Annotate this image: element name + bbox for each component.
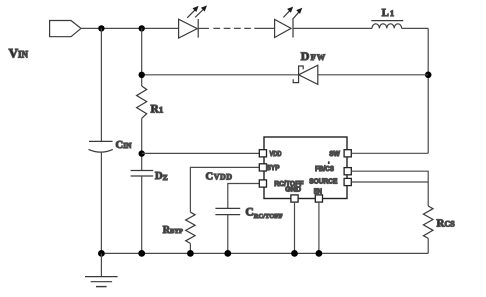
junction dot ground rail at GND pin — [291, 250, 298, 257]
pin label RC/TOFF — [274, 181, 304, 188]
resistor RBYP — [186, 212, 195, 243]
wire from LED2 cathode to inductor L1 — [293, 27, 372, 29]
wire SOURCE pin to RCS node — [351, 181, 428, 183]
pin GND (square) — [291, 195, 298, 202]
pin VDD (square) — [259, 150, 266, 157]
wire from DFW cathode to right rail — [318, 74, 428, 76]
ground — [85, 253, 118, 286]
wire FB/CS pin to RCS top — [351, 171, 428, 206]
svg-text:SW: SW — [329, 151, 340, 158]
svg-text:VIN: VIN — [9, 46, 29, 61]
svg-text:EN: EN — [314, 188, 322, 195]
svg-text:DZ: DZ — [155, 171, 168, 182]
wire BYP pin to RBYP — [190, 167, 259, 212]
LED D1 (first LED with light arrows) — [179, 5, 207, 38]
junction dot at VDD node — [139, 150, 145, 156]
label L1 — [382, 8, 395, 19]
junction dot ground rail at RBYP — [187, 250, 194, 257]
pin SOURCE (square) — [344, 178, 351, 185]
svg-text:L1: L1 — [382, 8, 395, 19]
junction dot ground rail at Dz — [138, 250, 145, 257]
inductor L1 — [371, 21, 403, 29]
wire RCS bottom to ground rail — [427, 238, 429, 253]
junction dot ground rail at EN pin — [316, 250, 323, 257]
junction dot ground rail at CIN — [98, 250, 105, 257]
wire top rail from VIN tag to LED1 anode — [80, 27, 179, 29]
wire right vertical rail (L1 to SW) — [427, 28, 429, 153]
pin label SW — [329, 151, 340, 158]
label CIN — [116, 140, 133, 151]
wire SW pin to right rail — [351, 152, 428, 154]
capacitor CRC/TOFF — [215, 208, 240, 214]
pin label BYP — [266, 165, 279, 172]
wire from top rail down to R1 — [141, 28, 143, 86]
svg-text:BYP: BYP — [266, 165, 279, 172]
op-amp U1 IC body — [264, 137, 347, 199]
wire EN pin to ground rail — [318, 202, 320, 253]
svg-text:SOURCE: SOURCE — [309, 179, 338, 186]
label CVDD — [206, 172, 233, 183]
wire GND pin to ground rail — [294, 202, 296, 253]
svg-text:FB/CS: FB/CS — [315, 166, 334, 173]
pin BYP (square) — [259, 164, 266, 171]
pin label GND — [285, 186, 301, 193]
wire from R1 to VDD node — [141, 118, 143, 170]
pin label VDD — [270, 151, 282, 158]
wire from VIN node down to CIN — [100, 28, 102, 141]
junction dot at R1/DFW node — [139, 72, 145, 78]
pin label SOURCE — [309, 179, 338, 186]
junction dot ground rail at CRC/TOFF — [224, 250, 231, 257]
svg-text:CIN: CIN — [116, 140, 133, 151]
diode DFW (freewheeling schottky) — [293, 65, 318, 84]
node VIN input tag — [50, 21, 81, 37]
wire from R1 top node to DFW anode — [142, 74, 299, 76]
wire after LED1 cathode (solid stub) — [198, 27, 209, 29]
label Dz — [155, 171, 168, 182]
wire VDD node to VDD pin — [142, 152, 260, 154]
wire from CIN bottom to ground rail — [100, 153, 102, 254]
label DFW — [301, 49, 326, 63]
pin SW (square) — [344, 150, 351, 157]
junction dot at VIN/R1 branch node — [139, 25, 145, 31]
pin label FB/CS — [315, 161, 334, 173]
pin label EN — [314, 188, 322, 195]
svg-text:GND: GND — [285, 186, 301, 193]
svg-text:DFW: DFW — [301, 49, 326, 63]
label RCS — [437, 218, 456, 230]
junction dot at VIN/CIN node — [98, 25, 104, 31]
wire ground rail — [101, 252, 428, 254]
resistor RCS — [423, 206, 433, 238]
zener diode Dz (drawn as two plates) — [131, 171, 154, 177]
label CRC/TOFF — [245, 207, 282, 220]
svg-text:CVDD: CVDD — [206, 172, 233, 183]
pin RC/TOFF (square) — [259, 180, 266, 187]
svg-text:RCS: RCS — [437, 218, 456, 230]
wire from dashed section to LED2 anode — [254, 27, 274, 29]
wire from Dz to ground rail — [141, 176, 143, 253]
pin EN (square) — [315, 195, 322, 202]
svg-text:RBYP: RBYP — [163, 225, 183, 236]
wire from L1 to right rail corner — [402, 27, 429, 29]
label RBYP — [163, 225, 183, 236]
label R1 — [151, 104, 164, 116]
wire CRC/TOFF to ground rail — [227, 215, 229, 254]
junction dot at DFW cathode / SW rail — [425, 72, 432, 79]
wire RC/TOFF pin to CRC/TOFF cap — [228, 184, 260, 209]
wire RBYP to ground rail — [189, 243, 191, 253]
pin FB/CS (square) — [344, 168, 351, 175]
capacitor CIN (polarized) — [89, 141, 113, 152]
label VIN — [9, 46, 29, 61]
LED D2 (last LED with light arrows) — [275, 7, 303, 38]
wire dashed (more LEDs in series) — [213, 27, 250, 29]
svg-text:VDD: VDD — [270, 151, 282, 158]
svg-text:R1: R1 — [151, 104, 164, 116]
resistor R1 — [137, 86, 147, 118]
svg-text:CRC/TOFF: CRC/TOFF — [245, 207, 282, 220]
